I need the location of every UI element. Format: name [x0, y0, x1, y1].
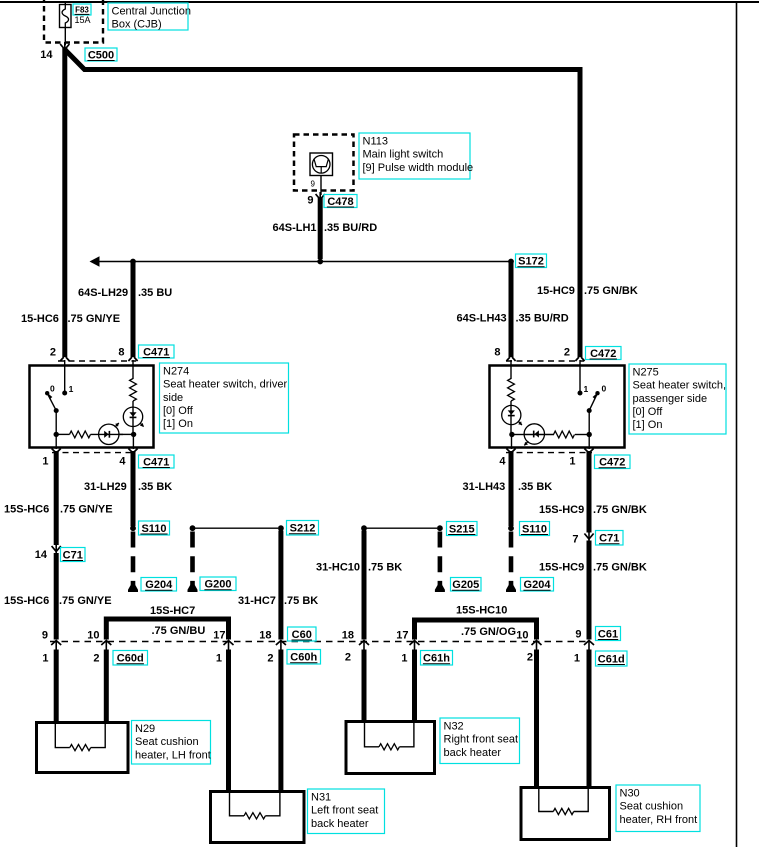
wire 15S-HC10 to N30 left: [534, 650, 539, 789]
svg-text:.35 BK: .35 BK: [518, 481, 552, 493]
svg-text:2: 2: [564, 347, 570, 359]
svg-text:14: 14: [35, 549, 48, 561]
node - splice S212: [278, 525, 284, 531]
svg-text:15S-HC9: 15S-HC9: [539, 562, 584, 574]
connector chevron 15S-HC6 at C60: [51, 641, 61, 650]
svg-text:4: 4: [119, 456, 126, 468]
fuse F83 15A: [60, 5, 72, 28]
ground G204 left: [128, 584, 138, 592]
wire 15S-HC9 to N30 right: [587, 650, 592, 789]
connector C472 dashed line top: [506, 360, 584, 362]
wire 15S-HC10 bus (right back heater to cushion): [415, 620, 537, 640]
wire 31-LH29 from driver pin 4 to splice S110: [131, 451, 136, 526]
wire 15S-HC7 to N29 right: [104, 650, 109, 724]
svg-text:C478: C478: [327, 196, 353, 208]
wire 31-HC10 to N32 left: [362, 650, 367, 723]
svg-text:2: 2: [93, 653, 99, 665]
svg-text:S110: S110: [141, 523, 166, 535]
wire - resistor to LED passenger: [510, 401, 512, 435]
svg-text:C61h: C61h: [423, 653, 450, 665]
label C60: [288, 627, 317, 641]
svg-text:G200: G200: [205, 579, 232, 591]
wire - page right border: [736, 2, 738, 847]
svg-text:15A: 15A: [75, 15, 91, 25]
svg-text:7: 7: [572, 534, 578, 546]
connector C471 dashed line top: [58, 360, 136, 362]
svg-text:Seat heater switch, driver: Seat heater switch, driver: [163, 379, 287, 391]
wire - pivot down passenger: [588, 411, 590, 435]
svg-text:Seat cushion: Seat cushion: [135, 736, 199, 748]
svg-text:14: 14: [40, 49, 53, 61]
svg-text:31-HC7: 31-HC7: [238, 595, 276, 607]
svg-text:.75 GN/BU: .75 GN/BU: [152, 625, 206, 637]
connector C471 dashed line bottom: [52, 452, 136, 454]
connector chevron 15S-HC10 left leg at C61h: [410, 641, 420, 650]
switch N274 body: [30, 366, 154, 448]
main light switch N113 dashed enclosure: [294, 135, 354, 191]
svg-text:1: 1: [42, 653, 48, 665]
label C500: [85, 48, 117, 62]
svg-text:9: 9: [311, 180, 316, 189]
svg-text:.75 GN/YE: .75 GN/YE: [68, 313, 121, 325]
node - junction pin 4: [131, 432, 136, 437]
switch arm passenger (pointing to 0): [589, 393, 597, 410]
wire - dashed ground lead to G205: [438, 532, 443, 586]
svg-text:.75 GN/BK: .75 GN/BK: [593, 504, 647, 516]
svg-text:heater, LH front: heater, LH front: [135, 749, 211, 761]
svg-text:10: 10: [516, 630, 528, 642]
wire - fuse feed from top: [64, 2, 66, 6]
svg-text:G204: G204: [145, 579, 173, 591]
LED - driver switch illumination (on horizontal): [99, 424, 119, 444]
wire - diagonal + top horizontal run + right vertical to passenger switch pin 2: [65, 50, 580, 358]
svg-text:17: 17: [396, 630, 408, 642]
svg-text:8: 8: [494, 347, 500, 359]
LED - passenger switch heat indicator (on vertical): [502, 405, 521, 424]
node - splice S110 driver: [130, 525, 136, 531]
svg-text:18: 18: [342, 630, 354, 642]
svg-text:N113: N113: [363, 135, 388, 147]
svg-text:15-HC6: 15-HC6: [21, 313, 59, 325]
connector C71 driver inline symbol: [52, 544, 61, 555]
wire - N113 internal lead down: [320, 176, 322, 196]
label N30 Seat cushion heater RH front: [616, 785, 700, 832]
svg-text:2: 2: [345, 652, 351, 664]
svg-text:C500: C500: [88, 50, 114, 62]
svg-text:[1] On: [1] On: [633, 419, 663, 431]
svg-text:64S-LH1: 64S-LH1: [273, 222, 317, 234]
wire 15S-HC9 from passenger pin 1 down to C71 right: [587, 451, 592, 533]
svg-text:15S-HC6: 15S-HC6: [4, 504, 49, 516]
label N274 Seat heater switch driver side: [160, 363, 289, 433]
label S215: [447, 522, 478, 536]
ground G200: [188, 584, 198, 592]
label C478: [324, 195, 357, 209]
label C60d: [113, 651, 148, 666]
svg-text:Left front seat: Left front seat: [311, 805, 378, 817]
wire - pivot down: [55, 411, 57, 435]
svg-text:4: 4: [499, 456, 506, 468]
label C71 right: [596, 531, 624, 546]
wire 31-HC7 from S212 down to C60 line: [278, 531, 283, 640]
svg-text:side: side: [163, 392, 183, 404]
label S172: [516, 254, 547, 268]
label S110 left: [139, 521, 170, 535]
ground G205: [435, 584, 445, 592]
svg-text:Box (CJB): Box (CJB): [112, 19, 162, 31]
main light switch symbol: [310, 153, 333, 176]
wire - junction to pin 4 exit passenger: [511, 435, 513, 450]
svg-text:64S-LH29: 64S-LH29: [78, 287, 128, 299]
connector chevron 15S-HC10 right leg at C61: [532, 641, 542, 650]
wire 31-HC7 to N31 right: [278, 650, 283, 793]
svg-text:15S-HC9: 15S-HC9: [539, 504, 584, 516]
svg-text:10: 10: [87, 630, 99, 642]
wire - pin 8 lead down passenger: [510, 360, 512, 379]
svg-text:1: 1: [69, 384, 74, 394]
svg-text:.75 GN/OG: .75 GN/OG: [461, 626, 516, 638]
wire 15S-HC7 bus (driver cushion to back heater): [106, 619, 228, 640]
wire 15S-HC10 to N32 right: [412, 650, 417, 723]
svg-text:2: 2: [50, 347, 56, 359]
connector flare passenger switch pin 4: [506, 449, 515, 454]
svg-text:Main light switch: Main light switch: [363, 149, 444, 161]
wire - junction to pin 1 exit passenger: [588, 435, 590, 450]
label S212: [287, 521, 319, 536]
svg-text:31-HC10: 31-HC10: [316, 562, 360, 574]
svg-text:18: 18: [259, 630, 271, 642]
svg-text:heater, RH front: heater, RH front: [620, 814, 698, 826]
label S110 right: [520, 522, 550, 536]
svg-text:N29: N29: [135, 723, 155, 735]
svg-text:back heater: back heater: [444, 747, 502, 759]
svg-text:N31: N31: [311, 791, 331, 803]
heater element N29 (resistor): [37, 723, 129, 773]
svg-text:C71: C71: [599, 533, 619, 545]
resistor - driver heater level: [130, 379, 137, 402]
label C471 top: [139, 345, 175, 359]
connector C472 dashed line bottom: [506, 452, 592, 454]
svg-text:1: 1: [401, 653, 407, 665]
node - junction pivot/resistor: [54, 432, 59, 437]
node - splice S110 right: [508, 525, 514, 531]
svg-text:C60h: C60h: [290, 652, 317, 664]
resistor - passenger switch indicator: [554, 431, 575, 438]
node - junction pin 4 passenger: [509, 432, 514, 437]
svg-text:15S-HC6: 15S-HC6: [4, 595, 49, 607]
svg-text:Central Junction: Central Junction: [112, 5, 192, 17]
wire 15S-HC9 from C71 right down to C61 line: [587, 541, 592, 640]
svg-text:N30: N30: [620, 787, 640, 799]
svg-text:G205: G205: [452, 579, 479, 591]
svg-text:N32: N32: [444, 720, 464, 732]
wire 15S-HC7 to N31 left: [226, 650, 231, 793]
connector flare passenger switch pin 1: [584, 449, 593, 454]
svg-text:31-LH43: 31-LH43: [463, 481, 506, 493]
svg-text:9: 9: [42, 630, 48, 642]
node - splice S172: [508, 259, 514, 265]
central junction box CJB dashed enclosure: [44, 0, 103, 43]
label N31 Left front seat back heater: [308, 789, 385, 834]
node - junction pivot/resistor passenger: [587, 432, 592, 437]
connector chevron 15S-HC7 right leg at C60: [224, 641, 234, 650]
svg-text:C472: C472: [590, 348, 616, 360]
connector flare passenger switch pin 8: [506, 357, 515, 361]
switch N275 body: [490, 366, 625, 448]
wire - horizontal to pin4 node passenger: [512, 434, 525, 436]
wire - fuse to connector C500: [64, 28, 66, 46]
heater element N32 (resistor): [346, 722, 435, 774]
svg-text:C471: C471: [143, 457, 169, 469]
label F83: [73, 4, 91, 15]
svg-text:S172: S172: [518, 256, 544, 268]
svg-text:15-HC9: 15-HC9: [537, 285, 575, 297]
LED - driver switch heat indicator (on vertical): [123, 407, 142, 426]
wire 15S-HC6 from driver pin 1 down to C71: [54, 451, 59, 545]
connector chevron 31-HC7 at C60h: [276, 641, 286, 650]
wire - dashed ground lead S110 to G204: [131, 532, 136, 586]
heater element N31 (resistor): [211, 792, 305, 843]
wire - pin 2 lead to contact 1: [64, 360, 66, 391]
svg-text:.35 BU: .35 BU: [138, 287, 172, 299]
node - ground branch junction 31-HC10: [361, 525, 367, 531]
svg-text:1: 1: [42, 456, 48, 468]
svg-text:31-LH29: 31-LH29: [84, 481, 127, 493]
label G205: [451, 578, 482, 592]
connector flare passenger switch pin 2: [575, 357, 584, 361]
svg-text:C61d: C61d: [598, 654, 625, 666]
svg-text:back heater: back heater: [311, 818, 369, 830]
svg-text:0: 0: [602, 384, 607, 394]
wire - horizontal splice bus with arrow to left: [90, 256, 100, 266]
connector flare driver switch pin 2: [60, 357, 69, 361]
label C61h: [421, 651, 453, 666]
wire - horizontal to pin4 node: [118, 433, 134, 435]
svg-text:C472: C472: [599, 457, 625, 469]
svg-text:2: 2: [527, 652, 533, 664]
node - pivot driver switch: [54, 408, 59, 413]
label C71 left: [61, 548, 86, 562]
svg-text:.75 GN/YE: .75 GN/YE: [60, 504, 113, 516]
svg-text:2: 2: [267, 653, 273, 665]
svg-text:.35 BK: .35 BK: [138, 481, 172, 493]
svg-text:Seat cushion: Seat cushion: [620, 801, 684, 813]
label N113 Main light switch: [359, 133, 473, 179]
connector chevron 31-HC10 at C61: [359, 641, 369, 650]
svg-text:.75 GN/BK: .75 GN/BK: [593, 562, 647, 574]
wire 15S-HC6 from C71 down to C60 line: [54, 553, 59, 640]
svg-text:.35 BU/RD: .35 BU/RD: [516, 313, 569, 325]
resistor - driver switch indicator: [70, 431, 91, 438]
node - contact 1 passenger switch: [578, 391, 583, 396]
svg-text:S212: S212: [290, 523, 316, 535]
node - contact 1 driver switch: [62, 391, 67, 396]
svg-text:C60d: C60d: [117, 653, 144, 665]
svg-text:S215: S215: [449, 524, 475, 536]
svg-text:[9] Pulse width module: [9] Pulse width module: [363, 162, 474, 174]
resistor - passenger heater level: [508, 379, 515, 402]
svg-text:C61: C61: [598, 629, 618, 641]
svg-text:[0] Off: [0] Off: [163, 405, 194, 417]
connector C500 inline symbol: [60, 42, 69, 53]
svg-text:Right front seat: Right front seat: [444, 734, 519, 746]
svg-text:passenger side: passenger side: [633, 393, 708, 405]
label C472 top: [586, 347, 622, 361]
svg-text:15S-HC7: 15S-HC7: [150, 605, 195, 617]
heater element N30 (resistor): [521, 788, 610, 840]
node - pivot passenger switch: [587, 408, 592, 413]
svg-text:C71: C71: [63, 550, 83, 562]
svg-text:8: 8: [118, 347, 124, 359]
label G204 right: [521, 578, 554, 592]
connector C60 dashed line: [50, 641, 589, 643]
wire - main battery feed: down-left vertical to driver switch pin 2: [62, 48, 67, 357]
svg-text:[0] Off: [0] Off: [633, 406, 664, 418]
switch arm driver (pointing to 0): [47, 393, 56, 410]
wire - dashed ground lead S110 right to G204: [509, 532, 514, 586]
connector flare driver switch pin 1: [52, 449, 61, 454]
label C60h: [287, 650, 321, 665]
label C472 bottom: [595, 455, 631, 469]
wire - resistor run passenger: [575, 434, 589, 436]
node - ground branch junction for G200: [190, 525, 196, 531]
wire 15S-HC6 to N29 left: [54, 650, 59, 724]
label N29 Seat cushion heater LH front: [132, 721, 211, 765]
label C471 bottom: [139, 455, 175, 469]
wire 64S-LH29 down to driver switch pin 8: [131, 263, 136, 357]
svg-text:.75 BK: .75 BK: [284, 595, 318, 607]
label C61d: [596, 651, 628, 666]
connector flare driver switch pin 8: [128, 357, 137, 361]
svg-text:9: 9: [307, 195, 313, 207]
svg-text:1: 1: [216, 653, 222, 665]
label Central Junction Box (CJB): [108, 3, 191, 31]
svg-text:N274: N274: [163, 365, 189, 377]
connector chevron 15S-HC7 left leg at C60d: [101, 641, 111, 650]
svg-text:.75 GN/YE: .75 GN/YE: [59, 595, 112, 607]
LED - passenger switch illumination (on horizontal): [524, 424, 544, 444]
label G204 left: [141, 578, 177, 592]
connector C71 passenger inline symbol: [584, 532, 593, 543]
label G200: [200, 577, 236, 591]
node - splice S215: [437, 525, 443, 531]
wire - to indicator resistor: [56, 433, 69, 435]
svg-text:.35 BU/RD: .35 BU/RD: [324, 222, 377, 234]
connector flare driver switch pin 4: [128, 449, 137, 454]
wire 31-HC10 down to C61 line: [362, 531, 367, 640]
wire - pin 8 lead down: [132, 360, 134, 379]
svg-text:C471: C471: [143, 347, 169, 359]
svg-text:N275: N275: [633, 366, 659, 378]
wire - junction to pin 1 exit: [55, 434, 57, 449]
svg-text:1: 1: [569, 456, 575, 468]
wire - page top border: [0, 1, 759, 3]
svg-text:0: 0: [50, 384, 55, 394]
svg-text:64S-LH43: 64S-LH43: [457, 313, 507, 325]
wire 64S-LH43 from S172 down to passenger switch pin 8: [509, 263, 514, 357]
wire - dashed ground lead to G200: [190, 532, 195, 586]
svg-text:9: 9: [575, 629, 581, 641]
label N275 Seat heater switch passenger side: [629, 364, 726, 434]
wire - S212 to G200 horizontal link: [193, 527, 279, 529]
wire 31-LH43 from passenger pin 4 to splice S110 right: [509, 451, 514, 526]
svg-text:15S-HC10: 15S-HC10: [456, 605, 507, 617]
node - junction N113 feed: [317, 259, 323, 265]
wire - resistor to LED: [132, 401, 134, 434]
svg-text:F83: F83: [75, 5, 89, 14]
svg-text:.75 GN/BK: .75 GN/BK: [584, 285, 638, 297]
ground G204 right: [506, 584, 516, 592]
svg-text:.75 BK: .75 BK: [368, 562, 402, 574]
wire 64S-LH1 from C478 down to splice line: [318, 198, 323, 259]
node - junction 64S-LH29 branch: [130, 259, 136, 265]
svg-text:1: 1: [584, 384, 589, 394]
wire - junction to pin 4 exit: [132, 434, 134, 449]
svg-text:1: 1: [574, 653, 580, 665]
wire - pin 2 lead to contact 1 passenger: [579, 360, 581, 391]
connector C478 inline symbol: [316, 192, 325, 203]
svg-text:Seat heater switch,: Seat heater switch,: [633, 380, 727, 392]
svg-text:S110: S110: [522, 524, 547, 536]
svg-text:G204: G204: [524, 579, 552, 591]
connector chevron 15S-HC9 at C61d: [584, 641, 594, 650]
svg-text:[1] On: [1] On: [163, 418, 193, 430]
label N32 Right front seat back heater: [440, 718, 520, 764]
label C61: [596, 627, 621, 641]
svg-text:C60: C60: [292, 629, 312, 641]
svg-text:17: 17: [213, 630, 225, 642]
wire - S215 horizontal link: [364, 527, 437, 529]
